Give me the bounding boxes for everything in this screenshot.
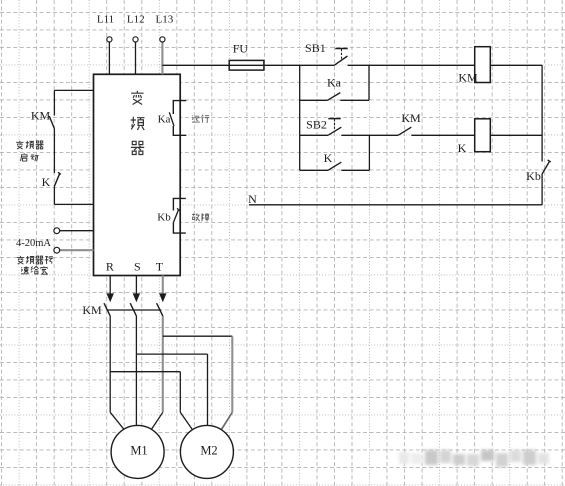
- svg-text:KM: KM: [401, 111, 421, 125]
- fuse FU: [229, 60, 264, 70]
- svg-text:T: T: [156, 260, 164, 274]
- svg-text:KM: KM: [82, 303, 102, 317]
- arrow on output S: [133, 293, 140, 302]
- KM linkage bar: [108, 309, 162, 311]
- arrow on output T: [159, 293, 166, 302]
- wire: R output: [109, 276, 111, 295]
- wire: K parallel branch: [300, 169, 328, 171]
- svg-text:KM: KM: [31, 109, 51, 123]
- wire: SB2/KM/K-coil branch: [300, 134, 328, 136]
- KM main contact pole R: [104, 303, 110, 316]
- wire: T branch to M2 right: [163, 335, 233, 337]
- wire: R diagonal into M1: [110, 412, 124, 430]
- wire: T below KM: [162, 316, 164, 412]
- wire: right rail: [541, 65, 543, 161]
- svg-text:K: K: [458, 141, 467, 155]
- pushbutton SB2: [328, 127, 341, 135]
- svg-text:N: N: [248, 192, 257, 206]
- svg-text:K: K: [42, 175, 51, 189]
- inverter U1 (变频器) box: [94, 74, 181, 275]
- contact K (left start branch): [54, 173, 59, 186]
- svg-text:L12: L12: [127, 14, 145, 26]
- wire: R below KM: [109, 316, 111, 412]
- label 故障: [192, 213, 200, 221]
- contact Ka (parallel with SB1): [328, 93, 341, 101]
- terminal 4-20mA +: [54, 228, 60, 234]
- wire: S below KM down to M1: [135, 316, 137, 426]
- label 变频器 (start): [16, 141, 23, 149]
- svg-text:SB2: SB2: [306, 117, 327, 131]
- wire: T diagonal into M1: [151, 412, 163, 430]
- svg-text:R: R: [106, 260, 114, 274]
- wire: start branch from box (KM,K series): [54, 89, 93, 91]
- label 启动: [21, 153, 28, 161]
- relay output contact Kb (故障): [173, 198, 185, 233]
- svg-text:Kb: Kb: [526, 169, 541, 183]
- svg-text:KM: KM: [458, 70, 478, 84]
- contactor coil KM: [475, 47, 491, 83]
- svg-text:Ka: Ka: [158, 113, 171, 125]
- terminal L11: [107, 37, 112, 42]
- wire: S branch to M2 center: [136, 353, 207, 355]
- contact KM (series in K-coil branch): [398, 127, 411, 135]
- wire: L13 lead: [161, 42, 163, 74]
- wire: 4-20mA lower (speed ref): [60, 249, 94, 251]
- svg-text:M2: M2: [200, 444, 217, 458]
- wire: L12 lead: [135, 42, 137, 74]
- svg-text:SB1: SB1: [305, 41, 326, 55]
- svg-text:Ka: Ka: [327, 76, 342, 90]
- label 速给定: [21, 266, 29, 274]
- svg-text:S: S: [134, 260, 141, 274]
- wire: S output: [135, 276, 137, 295]
- relay coil K: [475, 119, 491, 152]
- contact K (parallel with SB2): [328, 162, 341, 170]
- svg-text:L13: L13: [156, 14, 174, 26]
- wire: main line to FU and control circuit: [162, 64, 334, 66]
- terminal L12: [133, 37, 138, 42]
- svg-text:FU: FU: [233, 41, 249, 55]
- svg-text:4-20mA: 4-20mA: [16, 238, 51, 249]
- contact Kb (fault, on right rail): [542, 161, 550, 174]
- svg-text:Kb: Kb: [157, 212, 171, 224]
- wire: T output: [162, 276, 164, 295]
- relay output contact Ka (运行): [173, 101, 186, 136]
- svg-text:K: K: [324, 151, 333, 165]
- wire: R branch to M2 left: [110, 371, 180, 373]
- wire: Ka parallel branch: [300, 99, 328, 101]
- wire: left rail of control branch: [299, 65, 301, 170]
- KM main contact pole S: [130, 303, 136, 316]
- svg-text:L11: L11: [97, 14, 114, 26]
- wire: 4-20mA upper: [60, 230, 94, 232]
- label 变频器转: [17, 256, 24, 264]
- pushbutton SB1: [334, 56, 347, 65]
- motor M2: [180, 425, 233, 478]
- label 运行: [192, 115, 200, 122]
- svg-text:M1: M1: [130, 444, 147, 458]
- wire: N line: [249, 204, 542, 206]
- contact KM (left start branch): [49, 116, 54, 129]
- KM main contact pole T: [157, 303, 163, 316]
- wire: L11 lead: [108, 42, 110, 74]
- terminal 4-20mA -: [54, 247, 60, 253]
- watermark (blurred gray): [399, 450, 549, 467]
- motor M1: [111, 425, 164, 478]
- arrow on output R: [107, 293, 114, 302]
- terminal L13: [160, 37, 165, 42]
